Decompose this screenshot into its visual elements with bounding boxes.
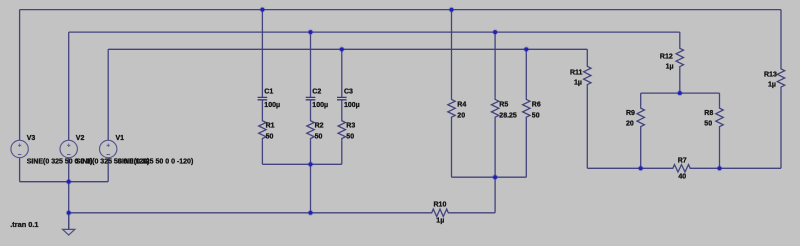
svg-text:V3: V3 [27, 135, 36, 142]
svg-text:V2: V2 [76, 135, 85, 142]
svg-text:R11: R11 [570, 70, 583, 77]
svg-text:1µ: 1µ [436, 218, 444, 225]
svg-text:R4: R4 [457, 101, 466, 108]
svg-text:R12: R12 [660, 54, 673, 61]
svg-text:V1: V1 [116, 135, 125, 142]
svg-text:1µ: 1µ [574, 80, 582, 87]
svg-text:50: 50 [266, 134, 274, 141]
svg-text:R7: R7 [678, 157, 687, 164]
svg-text:50: 50 [315, 134, 323, 141]
svg-text:40: 40 [678, 174, 686, 181]
svg-text:C2: C2 [312, 89, 321, 96]
svg-text:SINE(0 325 50 0 0 -120): SINE(0 325 50 0 0 -120) [117, 158, 193, 165]
svg-text:R8: R8 [704, 110, 713, 117]
svg-text:R6: R6 [532, 101, 541, 108]
svg-text:1µ: 1µ [666, 64, 674, 71]
svg-text:50: 50 [704, 121, 712, 128]
svg-text:R2: R2 [315, 123, 324, 130]
svg-text:100µ: 100µ [312, 102, 328, 109]
svg-text:1µ: 1µ [768, 82, 776, 89]
svg-text:20: 20 [626, 121, 634, 128]
svg-text:.tran 0.1: .tran 0.1 [10, 220, 38, 229]
svg-text:R9: R9 [626, 110, 635, 117]
svg-text:R3: R3 [346, 123, 355, 130]
svg-text:50: 50 [346, 134, 354, 141]
svg-text:R1: R1 [266, 123, 275, 130]
svg-text:C3: C3 [344, 89, 353, 96]
svg-text:R10: R10 [434, 202, 447, 209]
svg-text:20: 20 [457, 113, 465, 120]
svg-text:R5: R5 [499, 101, 508, 108]
svg-text:100µ: 100µ [264, 102, 280, 109]
svg-text:100µ: 100µ [344, 102, 360, 109]
svg-text:C1: C1 [264, 89, 273, 96]
svg-text:50: 50 [532, 113, 540, 120]
svg-text:28.25: 28.25 [499, 113, 517, 120]
svg-text:R13: R13 [764, 72, 777, 79]
